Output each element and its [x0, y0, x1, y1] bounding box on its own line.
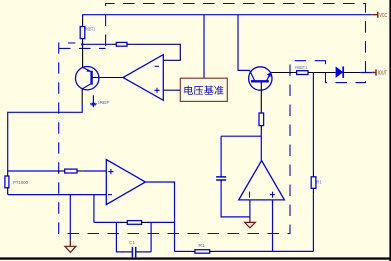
pin R4 top [312, 171, 314, 177]
wire C2 bottom to ground node [221, 184, 250, 217]
box U2 voltage reference [180, 78, 227, 101]
wire to op-amp U1 inverting input [132, 44, 181, 60]
pin C1 right [136, 251, 142, 253]
wire diode to port [344, 72, 360, 74]
wire rail down to Q2 collector [238, 15, 250, 71]
pin C2 top [220, 173, 222, 177]
svg-text:VCC: VCC [379, 13, 387, 19]
diode D1 [336, 66, 344, 78]
wire R4 to bottom rail [312, 194, 314, 251]
dashed selection border left/bottom/right region [59, 43, 326, 234]
op-amp U1 minus mark [155, 65, 159, 67]
wire U3 inverting to ground [249, 200, 251, 217]
resistor Rfb [127, 221, 141, 225]
op-amp U1 [123, 55, 163, 101]
wire U1 output to Q1 base [92, 77, 123, 79]
transistor Q1 base bar [90, 71, 92, 85]
pin R6 bottom / emitter lead [82, 39, 84, 68]
svg-text:PT1000: PT1000 [13, 180, 29, 185]
pin Q1 collector down [81, 89, 83, 103]
pin PT1000 top [7, 171, 9, 176]
capacitor C1 plates [132, 247, 135, 257]
svg-text:R1: R1 [198, 243, 205, 248]
window border right [389, 0, 391, 261]
transistor Q2 base bar [251, 80, 269, 82]
svg-text:R1: R1 [316, 179, 322, 184]
resistor R4 [311, 177, 316, 189]
wire feedback rail [94, 221, 123, 223]
wire collector to left rail [8, 103, 83, 171]
wire feedback node down [93, 195, 95, 223]
pin Rfb right [142, 221, 147, 223]
svg-text:IREF: IREF [98, 100, 110, 105]
wire cap C2 top [221, 135, 261, 137]
transistor Q1 emitter arrow [86, 69, 90, 72]
wire minus rail [8, 194, 107, 196]
wire rail corner down to R6 [82, 14, 84, 17]
resistor R1 [195, 250, 210, 254]
window border bottom [0, 257, 391, 259]
pin Rfb left [123, 221, 128, 223]
wire top rail [83, 14, 373, 16]
pin R1 left [190, 250, 195, 252]
transistor Q1 collector lead [82, 83, 91, 89]
svg-text:C1: C1 [129, 240, 136, 245]
wire C1 left lead [116, 222, 125, 252]
pin C1 left [126, 251, 132, 253]
op-amp U2a plus mark [108, 169, 113, 174]
dashed selection border top region [106, 4, 366, 83]
transistor Q1 emitter lead [83, 67, 92, 71]
wire bottom rail left [175, 250, 191, 252]
pin R7 left [112, 43, 117, 45]
transistor Q1 [76, 67, 99, 90]
wire C1 right lead [142, 222, 151, 252]
op-amp U3 plus mark [270, 192, 275, 198]
capacitor C2 plates [216, 177, 226, 180]
wire diode node down right column [312, 73, 314, 172]
wire rail to voltage ref box [203, 15, 205, 78]
pin R6 top [82, 17, 84, 26]
op-amp U1 plus mark [154, 88, 159, 93]
resistor R3 [65, 169, 77, 173]
port IOUT [372, 69, 376, 75]
wire U3 noninverting down [272, 200, 274, 252]
ground GND1 [69, 240, 71, 246]
current arrow IREF [92, 95, 94, 104]
junction dot node A [81, 43, 84, 46]
wire node A horizontal [82, 43, 112, 45]
dashed segment top-left [59, 47, 106, 49]
wire bottom rail right [215, 250, 314, 252]
pin Q2 emitter wire [271, 72, 296, 74]
resistor PT1000 [5, 176, 9, 188]
pin R2 bottom [260, 126, 262, 131]
transistor Q2 collector lead [250, 70, 255, 81]
transistor Q2 emitter lead [266, 72, 271, 81]
pin R5 right to diode [308, 72, 336, 74]
pin R3 left [57, 170, 65, 172]
pin R7 right [127, 43, 132, 45]
resistor R6BT1 [80, 27, 85, 39]
wire U2a output [145, 182, 174, 251]
resistor R5 [297, 71, 308, 75]
wire R3 to op-amp U2a plus input [83, 170, 107, 172]
ground GND2 [249, 217, 251, 223]
pin PT1000 bottom [7, 188, 9, 195]
op-amp U2a [106, 160, 145, 205]
resistor R7 [116, 42, 127, 46]
transistor Q2 [249, 67, 272, 90]
svg-text:电压基准: 电压基准 [183, 85, 224, 97]
wire op-amp U1 noninverting stub [163, 89, 180, 91]
svg-text:R6BT1: R6BT1 [85, 27, 95, 32]
op-amp U3 [239, 161, 285, 200]
op-amp U3 minus mark [249, 192, 251, 198]
resistor R2 [259, 113, 264, 126]
pin R1 right [210, 250, 215, 252]
wire Rfb to output column [147, 221, 175, 223]
pin Q2 base down [260, 82, 262, 113]
wire ground stem GND1 [69, 195, 71, 241]
op-amp U2a minus mark [108, 194, 112, 196]
pin R4 bottom [312, 188, 314, 194]
pin C2 bottom [220, 180, 222, 184]
svg-text:R6BT1: R6BT1 [295, 65, 307, 70]
pin R3 right [77, 170, 83, 172]
port VCC [372, 12, 378, 18]
svg-text:IOUT: IOUT [378, 71, 388, 77]
wire PT1000 node horizontal [8, 170, 57, 172]
wire R2 to op-amp U3 apex [260, 131, 262, 161]
transistor Q2 emitter arrow [267, 72, 271, 77]
